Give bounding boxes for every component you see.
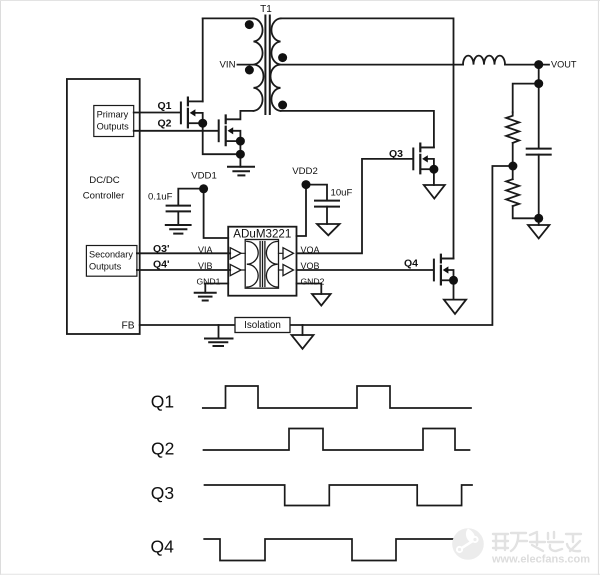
node divider mid [508, 162, 517, 171]
capacitor output [527, 149, 551, 155]
svg-text:Q4': Q4' [153, 258, 170, 270]
svg-text:Q3: Q3 [151, 483, 174, 503]
wire GND1 [205, 284, 228, 293]
wire divider mid [512, 166, 514, 179]
wire GND2 [297, 284, 322, 295]
buffer input A [230, 248, 241, 259]
watermark logo circle [452, 528, 484, 560]
wire inductor to VOUT [505, 64, 549, 66]
ground triangle Q3 [424, 185, 445, 199]
buffer input B [230, 264, 241, 275]
ground triangle under 10uF [317, 224, 340, 235]
buffer output B [283, 264, 294, 275]
svg-text:www.elecfans.com: www.elecfans.com [491, 554, 590, 566]
ground GND1 bars [195, 292, 216, 294]
secondary outputs box [86, 246, 136, 277]
svg-text:Outputs: Outputs [97, 121, 130, 131]
wire VOUT down to cap [538, 65, 540, 149]
wire primary bottom to Q2 drain [227, 111, 254, 119]
svg-text:DC/DC: DC/DC [89, 175, 119, 186]
node Q1 source [198, 119, 207, 128]
wire secondary mid to inductor [281, 64, 464, 66]
ground triangle GND2 [312, 294, 331, 306]
waveform Q2 [204, 429, 470, 451]
buffer stubs [241, 253, 283, 270]
wire Q3 source to ground [433, 169, 435, 185]
wire VOB to Q4 gate [297, 269, 434, 271]
svg-text:Q2: Q2 [158, 118, 172, 130]
svg-text:FB: FB [122, 320, 135, 331]
wire Q1 gate [134, 112, 180, 114]
node Q4 source [449, 276, 458, 285]
wire Q4 source to ground [453, 280, 455, 299]
op-amp U1 ADuM3221 outer box [228, 227, 296, 296]
svg-text:VIA: VIA [198, 245, 213, 255]
svg-text:GND1: GND1 [197, 277, 221, 287]
svg-text:Q2: Q2 [151, 439, 174, 459]
ground hatched isolation left [218, 325, 220, 339]
phase dot secondary mid [278, 53, 287, 62]
inductor L1 [463, 56, 505, 65]
ground triangle isolation right [302, 325, 304, 335]
ADuM3221 core lines [260, 242, 265, 287]
ground under 0.1uF [166, 224, 191, 226]
capacitor 0.1uF [167, 206, 190, 212]
ADuM3221 left coil [247, 241, 258, 287]
node source junction [236, 150, 245, 159]
node VDD1 [199, 184, 208, 193]
arrow Q3 body [422, 155, 428, 162]
svg-text:VIN: VIN [220, 60, 236, 71]
wire Q2 gate [134, 130, 219, 132]
svg-text:Q1: Q1 [158, 100, 172, 112]
wire primary left vertical [202, 18, 204, 101]
waveform Q3 [205, 485, 473, 506]
svg-text:Q4: Q4 [151, 537, 175, 557]
arrow Q2 body [228, 127, 234, 134]
svg-text:Primary: Primary [97, 109, 129, 119]
svg-text:VOA: VOA [301, 245, 320, 255]
wire secondary bottom to Q3 drain [281, 111, 434, 147]
svg-text:Q4: Q4 [404, 257, 418, 269]
svg-text:VIB: VIB [198, 261, 213, 271]
resistor R1 [506, 112, 519, 143]
transistor Q2 [219, 116, 226, 146]
svg-text:Secondary: Secondary [89, 249, 133, 259]
wire Q2 source to ground [239, 141, 241, 167]
node VDD2 [302, 180, 311, 189]
DC/DC controller box [67, 79, 140, 334]
wire FB [140, 166, 513, 325]
phase dot primary top [245, 20, 254, 29]
svg-text:Outputs: Outputs [89, 261, 122, 271]
svg-text:Q3': Q3' [153, 243, 170, 255]
svg-text:VOUT: VOUT [551, 59, 577, 69]
svg-text:ADuM3221: ADuM3221 [233, 227, 291, 240]
wire VOUT branch to divider [513, 84, 539, 113]
arrow Q1 body [190, 109, 196, 116]
phase dot primary mid [245, 66, 254, 75]
node VOUT [534, 60, 543, 69]
wire VOA to Q3 gate [297, 159, 414, 253]
primary outputs box [94, 106, 134, 137]
ADuM3221 right coil [266, 241, 277, 287]
svg-text:VOB: VOB [301, 261, 320, 271]
svg-text:T1: T1 [260, 4, 272, 15]
node cap bottom [534, 214, 543, 223]
ground primary GND bars [228, 166, 254, 168]
svg-text:0.1uF: 0.1uF [148, 191, 173, 202]
phase dot secondary bottom [278, 101, 287, 110]
node Q2 body-source [236, 137, 245, 146]
svg-text:VDD2: VDD2 [292, 166, 318, 177]
svg-text:VDD1: VDD1 [191, 171, 217, 182]
transformer T1 primary winding [254, 18, 264, 111]
ground triangle output [528, 225, 549, 238]
transformer core [265, 16, 269, 115]
wire VIA (Q3') [137, 252, 230, 254]
svg-text:Q3: Q3 [389, 148, 403, 160]
transformer T1 primary top wire [203, 17, 254, 19]
ADuM3221 inner transformer box [245, 240, 278, 289]
watermark chinese text [493, 532, 581, 551]
wire VIB (Q4') [137, 269, 230, 271]
svg-text:Controller: Controller [83, 191, 125, 202]
wire VDD2 node [297, 185, 328, 236]
svg-text:10uF: 10uF [331, 188, 353, 199]
arrow Q4 body [443, 266, 449, 273]
capacitor 10uF [315, 201, 339, 207]
waveform Q4 [204, 539, 470, 561]
wire Q1 source down [203, 123, 241, 154]
wire VIN tap [238, 64, 254, 66]
node Q3 source [429, 165, 438, 174]
buffer output A [283, 248, 294, 259]
waveform Q1 [203, 386, 471, 408]
resistor R2 [506, 179, 519, 206]
svg-text:GND2: GND2 [301, 277, 325, 287]
wire secondary top to Q4 drain [281, 18, 454, 258]
svg-text:Q1: Q1 [151, 391, 174, 411]
transistor Q1 [181, 98, 188, 128]
wire VDD1 node [178, 189, 228, 238]
wire to output ground [538, 218, 540, 225]
svg-text:Isolation: Isolation [244, 320, 281, 331]
transistor Q4 [434, 255, 441, 285]
transistor Q3 [413, 144, 420, 174]
node VOUT lower [534, 79, 543, 88]
transformer T1 secondary winding [271, 18, 281, 111]
ground triangle Q4 [444, 300, 466, 314]
isolation box [235, 318, 290, 333]
